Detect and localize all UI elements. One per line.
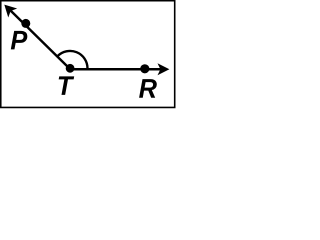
arrowhead of ray TP: [4, 5, 17, 18]
wire ray T to R: [70, 68, 161, 71]
label T: [59, 76, 74, 95]
border frame: [1, 1, 175, 108]
label R: [139, 79, 157, 98]
node R (point dot): [140, 64, 149, 73]
node T (vertex dot): [66, 64, 75, 73]
wire ray T to P: [9, 9, 70, 69]
angle arc at T: [57, 51, 87, 68]
label P: [11, 31, 28, 50]
arrowhead of ray TR: [158, 63, 170, 75]
node P (point dot): [21, 19, 30, 28]
